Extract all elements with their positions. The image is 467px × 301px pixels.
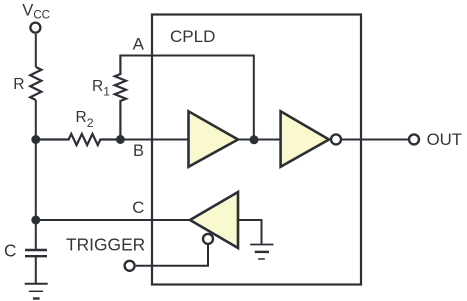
enable bubble U1c xyxy=(203,234,213,244)
junction dot node B xyxy=(116,135,125,144)
ground symbol (capacitor) xyxy=(25,283,48,285)
svg-text:R2: R2 xyxy=(76,109,94,130)
wire node C to capacitor C xyxy=(35,220,37,250)
tri-state buffer U1c xyxy=(190,192,238,248)
resistor R xyxy=(30,67,41,100)
wire left rail to node C junction xyxy=(35,140,37,221)
terminal OUT xyxy=(409,134,419,144)
wire node B into CPLD xyxy=(120,139,188,141)
capacitor C xyxy=(25,250,47,256)
wire tri-state U1c input to ground xyxy=(238,220,262,244)
svg-text:VCC: VCC xyxy=(22,1,50,22)
svg-text:R: R xyxy=(13,76,24,93)
wire node A xyxy=(119,56,253,140)
svg-text:R1: R1 xyxy=(92,78,110,98)
resistor R2 with leads xyxy=(36,134,121,145)
wire enable bubble to TRIGGER terminal xyxy=(136,245,208,266)
wire R to left junction xyxy=(35,100,37,140)
junction dot node C xyxy=(31,216,40,225)
inverter U1b xyxy=(281,111,329,167)
wire inverter U1b to OUT terminal xyxy=(342,139,409,141)
svg-text:B: B xyxy=(133,142,144,160)
resistor R1 with leads xyxy=(115,56,126,140)
junction dot left rail / R2 xyxy=(31,135,40,144)
buffer U1a xyxy=(189,111,239,167)
wire buffer U1a output to inverter U1b input xyxy=(238,139,281,141)
wire capacitor C to ground xyxy=(35,256,37,284)
svg-text:OUT: OUT xyxy=(427,130,462,149)
CPLD box U1 xyxy=(152,15,361,285)
svg-text:C: C xyxy=(132,198,144,217)
wire node C to tri-state U1c output xyxy=(36,219,190,221)
junction dot node A feedback xyxy=(250,135,259,144)
terminal TRIGGER xyxy=(125,261,135,271)
svg-text:TRIGGER: TRIGGER xyxy=(66,235,145,255)
svg-text:C: C xyxy=(4,241,16,261)
ground symbol (tri-state input) xyxy=(250,244,273,246)
inverter U1b output bubble xyxy=(331,134,341,144)
terminal VCC xyxy=(30,23,40,33)
wire VCC terminal to resistor R xyxy=(35,34,37,67)
svg-text:A: A xyxy=(133,35,145,54)
svg-text:CPLD: CPLD xyxy=(170,27,215,46)
